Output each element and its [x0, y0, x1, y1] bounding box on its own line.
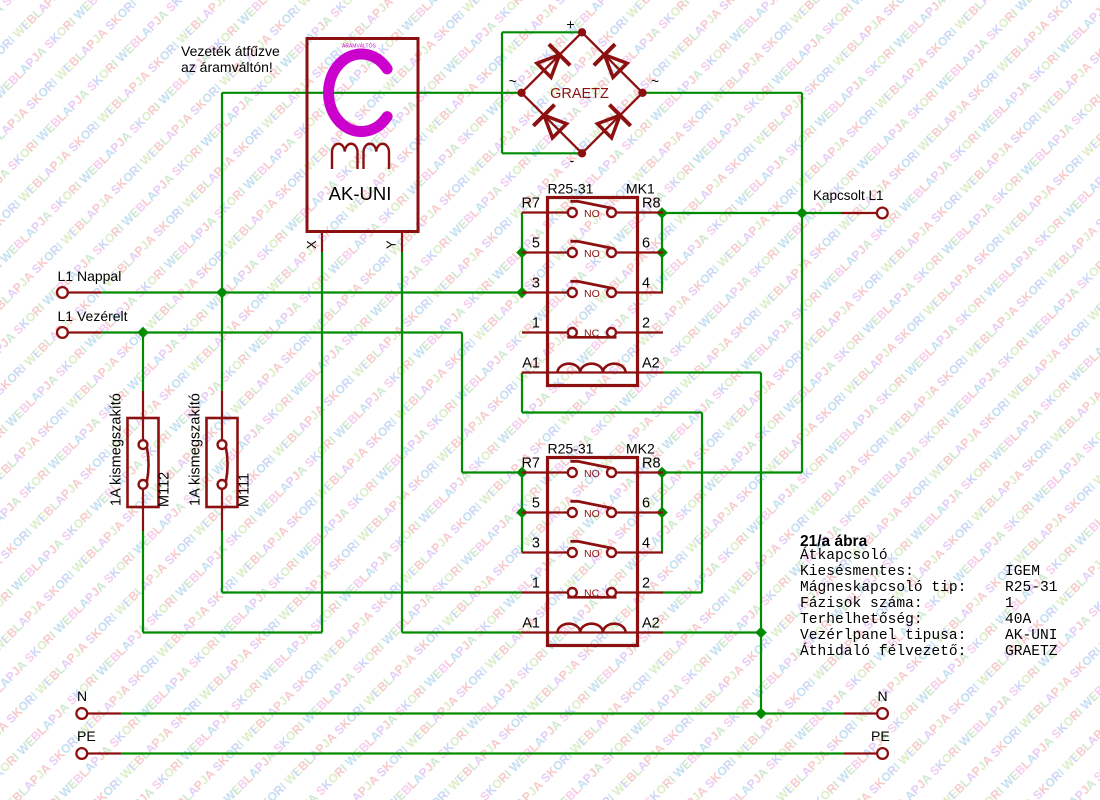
svg-text:N: N — [878, 688, 888, 704]
svg-text:MK1: MK1 — [626, 181, 655, 197]
svg-text:~: ~ — [651, 73, 659, 89]
svg-text:NO: NO — [584, 468, 600, 480]
svg-text:M112: M112 — [157, 472, 173, 507]
svg-text:A2: A2 — [642, 616, 660, 632]
svg-text:MK2: MK2 — [626, 441, 655, 457]
svg-text:L1 Nappal: L1 Nappal — [58, 268, 122, 284]
svg-text:R25-31: R25-31 — [548, 181, 594, 197]
svg-text:6: 6 — [642, 236, 650, 252]
svg-text:R25-31: R25-31 — [1005, 580, 1058, 596]
svg-text:40A: 40A — [1005, 612, 1032, 628]
svg-text:AK-UNI: AK-UNI — [1005, 628, 1058, 644]
svg-text:3: 3 — [532, 276, 540, 292]
svg-text:1: 1 — [532, 316, 540, 332]
svg-text:Átkapcsoló: Átkapcsoló — [800, 546, 888, 564]
svg-text:NO: NO — [584, 208, 600, 220]
svg-text:Fázisok száma:: Fázisok száma: — [800, 596, 923, 612]
svg-text:6: 6 — [642, 496, 650, 512]
svg-text:2: 2 — [642, 316, 650, 332]
svg-text:Vezérlpanel tipusa:: Vezérlpanel tipusa: — [800, 628, 966, 644]
svg-text:R7: R7 — [521, 456, 540, 472]
svg-text:NO: NO — [584, 508, 600, 520]
svg-text:5: 5 — [532, 236, 540, 252]
svg-text:5: 5 — [532, 496, 540, 512]
svg-text:AK-UNI: AK-UNI — [329, 183, 392, 204]
svg-text:NO: NO — [584, 248, 600, 260]
svg-text:IGEM: IGEM — [1005, 564, 1040, 580]
svg-text:3: 3 — [532, 536, 540, 552]
svg-text:NO: NO — [584, 288, 600, 300]
svg-text:1: 1 — [532, 576, 540, 592]
svg-text:Kapcsolt L1: Kapcsolt L1 — [813, 188, 884, 203]
svg-text:1A kismegszakító: 1A kismegszakító — [188, 393, 204, 506]
svg-text:2: 2 — [642, 576, 650, 592]
svg-text:Terhelhetőség:: Terhelhetőség: — [800, 612, 923, 628]
svg-text:~: ~ — [509, 73, 517, 89]
svg-text:M111: M111 — [237, 473, 253, 507]
svg-text:1: 1 — [1005, 596, 1014, 612]
svg-text:A1: A1 — [522, 616, 540, 632]
svg-text:+: + — [566, 16, 574, 32]
svg-text:4: 4 — [642, 536, 650, 552]
svg-text:ÁRAMVÁLTÓS: ÁRAMVÁLTÓS — [342, 43, 376, 50]
svg-text:-: - — [570, 152, 575, 168]
svg-text:Áthidaló félvezető:: Áthidaló félvezető: — [800, 642, 966, 660]
svg-text:L1 Vezérelt: L1 Vezérelt — [58, 308, 128, 324]
svg-text:X: X — [304, 240, 319, 249]
svg-text:NC: NC — [584, 588, 600, 600]
svg-text:NC: NC — [584, 328, 600, 340]
svg-text:PE: PE — [871, 728, 890, 744]
svg-text:R8: R8 — [642, 196, 661, 212]
svg-text:Mágneskapcsoló tip:: Mágneskapcsoló tip: — [800, 580, 966, 596]
svg-text:A1: A1 — [522, 356, 540, 372]
svg-text:R7: R7 — [521, 196, 540, 212]
svg-text:Kiesésmentes:: Kiesésmentes: — [800, 564, 914, 580]
svg-text:R25-31: R25-31 — [548, 441, 594, 457]
svg-text:Vezeték átfűzve: Vezeték átfűzve — [181, 43, 280, 59]
svg-text:GRAETZ: GRAETZ — [550, 86, 609, 102]
svg-text:Y: Y — [384, 240, 399, 249]
svg-text:az áramváltón!: az áramváltón! — [181, 59, 273, 75]
svg-text:4: 4 — [642, 276, 650, 292]
svg-text:NO: NO — [584, 548, 600, 560]
svg-text:GRAETZ: GRAETZ — [1005, 644, 1058, 660]
svg-text:1A kismegszakító: 1A kismegszakító — [109, 393, 125, 506]
svg-text:A2: A2 — [642, 356, 660, 372]
svg-text:PE: PE — [77, 728, 96, 744]
svg-text:N: N — [77, 688, 87, 704]
svg-text:R8: R8 — [642, 456, 661, 472]
